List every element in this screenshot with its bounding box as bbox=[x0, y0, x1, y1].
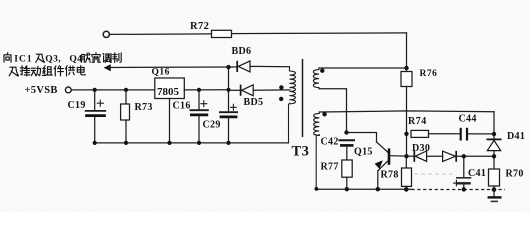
diode BD6 bbox=[229, 46, 290, 72]
Chinese note line 2: 及推动组件供电 bbox=[9, 66, 85, 76]
primary phase dot upper bbox=[279, 85, 283, 89]
svg-text:R70: R70 bbox=[506, 168, 524, 179]
junction node D41 cathode / R70 top bbox=[492, 154, 496, 158]
junction node C42 top bbox=[344, 130, 348, 134]
wire R72 to top-right corner bbox=[232, 32, 407, 35]
vertical BD rail bbox=[228, 67, 230, 143]
secondary 1 phase dot bbox=[320, 69, 324, 73]
junction node R74 left bbox=[404, 132, 408, 136]
junction node BD6/arrow bbox=[226, 65, 230, 69]
junction node R70 bottom bbox=[492, 187, 497, 192]
transformer secondary winding 1 (top) bbox=[313, 68, 406, 133]
svg-text:R73: R73 bbox=[135, 102, 153, 113]
transformer secondary winding 2 (bottom) bbox=[314, 111, 494, 189]
resistor R76 bbox=[401, 68, 437, 87]
wire corner down to R76 node bbox=[406, 33, 408, 68]
svg-text:R78: R78 bbox=[381, 169, 399, 180]
primary phase dot lower bbox=[279, 97, 283, 101]
dashed ground line right bbox=[412, 187, 506, 191]
junction node C16 top bbox=[197, 88, 201, 92]
resistor R73 bbox=[121, 90, 153, 143]
wire R76 down to R74 node and D30 node bbox=[406, 87, 408, 157]
resistor R74 bbox=[408, 116, 460, 137]
terminal circle top-left bbox=[103, 31, 109, 37]
svg-text:C16: C16 bbox=[173, 101, 191, 112]
svg-text:T3: T3 bbox=[292, 144, 310, 160]
diode D31 (unlabeled, after D30) bbox=[443, 151, 494, 162]
capacitor C16 bbox=[173, 90, 209, 143]
svg-text:Q3,: Q3, bbox=[45, 55, 61, 65]
svg-text:BD5: BD5 bbox=[244, 97, 264, 108]
resistor R72 bbox=[190, 21, 232, 38]
junction node C41 top bbox=[462, 154, 466, 158]
svg-text:C42: C42 bbox=[321, 136, 339, 147]
svg-text:R77: R77 bbox=[321, 161, 339, 172]
secondary 2 phase dot bbox=[322, 112, 326, 116]
wire 7805 output to BD rail bbox=[184, 89, 228, 91]
svg-text:Q15: Q15 bbox=[354, 146, 373, 157]
svg-text:R76: R76 bbox=[420, 69, 438, 79]
svg-text:IC1: IC1 bbox=[14, 55, 32, 65]
junction node D30 anode bbox=[404, 154, 408, 158]
svg-text:R72: R72 bbox=[190, 21, 209, 32]
capacitor C29 (on BD rail) bbox=[203, 104, 239, 130]
Chinese note line 1: 向IC1及Q3, Q4脉宽调制 bbox=[4, 53, 121, 65]
diode BD5 bbox=[229, 85, 291, 108]
junction node C19 top bbox=[93, 88, 97, 92]
capacitor C42 bbox=[321, 136, 356, 160]
svg-text:Q4: Q4 bbox=[69, 55, 82, 65]
svg-text:C19: C19 bbox=[68, 100, 86, 111]
svg-text:C44: C44 bbox=[459, 114, 477, 125]
junction node BD5/7805 out bbox=[226, 88, 230, 92]
svg-text:Q16: Q16 bbox=[152, 68, 170, 78]
wire terminal to R72 bbox=[110, 33, 212, 36]
resistor R77 bbox=[321, 160, 353, 189]
capacitor C41 bbox=[454, 156, 487, 189]
junction node R76 top bbox=[404, 66, 408, 70]
transformer core bbox=[302, 59, 304, 137]
terminal circle +5VSB bbox=[65, 87, 71, 93]
svg-text:D41: D41 bbox=[507, 131, 525, 142]
label +5VSB bbox=[25, 85, 58, 96]
arrow to note (left-pointing) bbox=[104, 64, 229, 71]
svg-text:7805: 7805 bbox=[157, 86, 180, 98]
regulator Q16 7805 bbox=[152, 68, 185, 143]
svg-text:BD6: BD6 bbox=[232, 46, 252, 57]
svg-text:C29: C29 bbox=[203, 119, 221, 130]
capacitor C44 bbox=[459, 114, 495, 141]
label T3 bbox=[292, 144, 310, 160]
ground rail left bbox=[93, 141, 289, 145]
resistor R70 bbox=[489, 168, 524, 189]
resistor R78 bbox=[381, 156, 412, 189]
junction node R73 top bbox=[124, 88, 128, 92]
svg-text:+5VSB: +5VSB bbox=[25, 85, 58, 96]
diode D41 bbox=[487, 112, 526, 169]
transistor Q15 bbox=[347, 133, 407, 190]
diode D30 bbox=[407, 143, 443, 162]
wire +5VSB rail to 7805 input bbox=[71, 89, 155, 91]
ground rail right bbox=[315, 187, 413, 192]
faint scan dashes bbox=[414, 173, 456, 175]
transformer T3 primary winding bbox=[289, 67, 296, 143]
capacitor C19 bbox=[68, 90, 107, 143]
svg-text:C41: C41 bbox=[468, 168, 486, 179]
svg-text:R74: R74 bbox=[408, 116, 427, 127]
ground symbol below R70 bbox=[488, 190, 502, 202]
